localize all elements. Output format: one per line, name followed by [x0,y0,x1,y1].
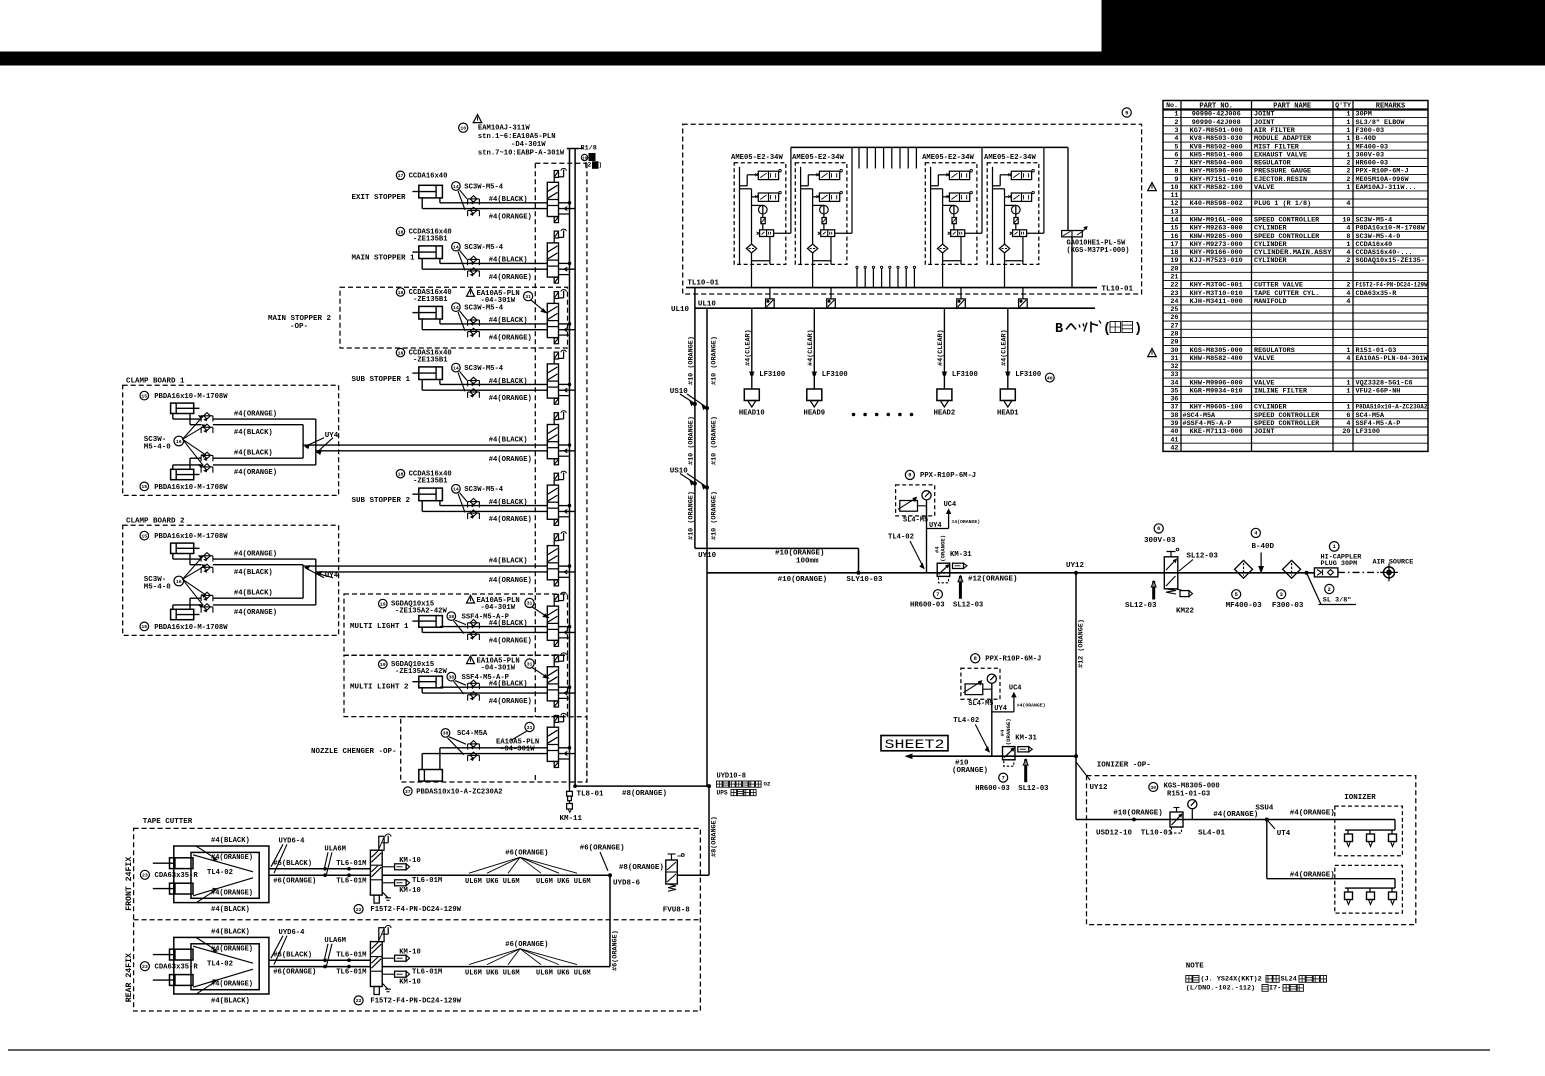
wire #4(BLACK) clamp 1 lower [190,445,303,469]
wire #4(ORANGE) multi light 1 to valve st8 [422,627,547,645]
svg-text:#4(ORANGE): #4(ORANGE) [211,854,253,862]
svg-text:1: 1 [1346,184,1350,192]
wire #4(ORANGE) clamp 1 upper [173,410,316,450]
svg-text:PART NO.: PART NO. [1199,103,1233,111]
svg-text:VFU2-66P-NH: VFU2-66P-NH [1356,388,1401,396]
wire #12(ORANGE) drop to ionizer [1075,756,1077,819]
head drop HEAD9 [807,308,848,389]
svg-text:KG7-M8501-000: KG7-M8501-000 [1190,127,1243,135]
svg-text:#4(ORANGE): #4(ORANGE) [1213,811,1258,819]
svg-text:TL8-01: TL8-01 [577,791,605,799]
wire valve st7 port B to rail B [559,570,576,574]
muffler KM-10 upper (front) [382,857,421,870]
svg-text:#4(ORANGE): #4(ORANGE) [1290,871,1335,879]
svg-text:PPX-R10P-6M-J: PPX-R10P-6M-J [920,472,976,480]
label #12(ORANGE) after HR600 upper [968,575,1018,583]
svg-text:1: 1 [1346,143,1350,151]
svg-text:HEAD1: HEAD1 [997,409,1019,417]
svg-text:UY12: UY12 [1066,562,1085,570]
svg-text:#4(ORANGE): #4(ORANGE) [489,516,532,524]
svg-text:UL10: UL10 [671,306,690,314]
svg-text:3: 3 [1280,592,1283,598]
wire valve st7 port A to rail A [559,565,571,568]
wire AME unit 4 internals [993,167,1023,288]
wire AME unit 1 internals [740,167,770,288]
svg-text:KM-31: KM-31 [950,551,972,559]
svg-text:SC3W-M5-4-0: SC3W-M5-4-0 [1356,233,1401,241]
speed controller 14 SC3W-M5-4 (MAIN STOPPER 2) [452,303,504,337]
svg-text:31: 31 [527,725,533,731]
svg-text:#4(BLACK): #4(BLACK) [489,196,528,204]
svg-text:PBDAS10x10-A-ZC230A2: PBDAS10x10-A-ZC230A2 [416,789,502,797]
valve 31 EA10A5-PLN-04-301W note (MAIN STOPPER 2) [467,289,547,313]
svg-text:MF400-03: MF400-03 [1226,602,1263,610]
svg-text:UL6M UK6 UL6M: UL6M UK6 UL6M [536,878,591,886]
wire main air line #12(ORANGE) [707,571,1314,584]
svg-text:10: 10 [460,126,466,132]
svg-text:4: 4 [1346,420,1350,428]
svg-text:28: 28 [1170,331,1178,339]
svg-text:300V-03: 300V-03 [1144,537,1176,545]
svg-text:-OP-: -OP- [290,323,308,331]
node US10 union 2 [670,467,709,489]
svg-text:KV8-M8502-000: KV8-M8502-000 [1190,143,1243,151]
svg-text:MF400-03: MF400-03 [1356,143,1389,151]
filter AME unit 3 [952,218,956,224]
svg-text:22: 22 [1170,282,1178,290]
wire nozzle chenger ports [422,748,547,770]
svg-text:#SSF4-M5-A-P: #SSF4-M5-A-P [1183,420,1232,428]
svg-text:CUTTER VALVE: CUTTER VALVE [1254,282,1303,290]
nozzle head HEAD2 [934,389,956,417]
wire #4(ORANGE) clamp 2 to valve st7 [316,572,548,585]
svg-text:HEAD9: HEAD9 [804,409,826,417]
title block black box top right [1102,0,1545,57]
svg-text:24: 24 [1170,298,1178,306]
svg-text:38: 38 [1170,412,1178,420]
svg-text:UL6M UK6 UL6M: UL6M UK6 UL6M [465,878,520,886]
svg-text:MODULE ADAPTER: MODULE ADAPTER [1254,135,1312,143]
speed controller 38 SC4-M5A (nozzle chenger) [441,729,488,761]
speed controller 38 SSF4-M5-A-P (multi light 1) [447,612,510,640]
vacuum gauge AME unit 4 [1012,205,1021,214]
svg-text:38: 38 [443,731,449,737]
svg-text:UPS: UPS [717,789,728,796]
speed controller 14 SC3W-M5-4 (SUB STOPPER 2) [452,485,504,520]
svg-text:SC3W-M5-4: SC3W-M5-4 [464,183,504,191]
svg-text:F15T2-F4-PN-DC24-129W: F15T2-F4-PN-DC24-129W [1356,282,1429,290]
svg-text:TL6-01M: TL6-01M [336,860,366,868]
svg-text:#4(ORANGE): #4(ORANGE) [211,945,253,953]
node ellipsis dots (heads 3-8) [852,413,913,416]
svg-text:LF3100: LF3100 [1356,428,1380,436]
svg-text:JOINT: JOINT [1254,119,1274,127]
wire #4(ORANGE) EXIT STOPPER to valve st1 [422,198,547,222]
svg-text:PBDA16x10-M-1708W: PBDA16x10-M-1708W [154,484,228,492]
svg-text:-ZE135B1: -ZE135B1 [413,236,448,244]
wire manifold rail A (supply) [569,149,571,787]
wire valve st9 port A to rail A [559,686,571,689]
svg-text:#4(BLACK): #4(BLACK) [489,681,528,689]
node joint 2 SL 3/8 leader [1305,571,1356,604]
solenoid valve station 7 (EA10A5 manifold valve) [547,532,566,586]
svg-text:CYLINDER: CYLINDER [1254,225,1288,233]
check valve AME unit 2 [807,244,817,253]
svg-text:4: 4 [1346,355,1350,363]
wire AME unit 4 output riser [1027,147,1044,233]
svg-text:4: 4 [1346,290,1350,298]
svg-text:17: 17 [398,173,404,179]
svg-text:#10 (ORANGE): #10 (ORANGE) [710,336,718,385]
regulator 7 HR600-03 (lower) [975,747,1015,793]
svg-text:LF3100: LF3100 [1015,371,1041,379]
svg-text:TL4-02: TL4-02 [953,717,979,725]
svg-text:12: 12 [1170,200,1178,208]
svg-text:23: 23 [1170,290,1178,298]
wire station comb (top, unused stations) [859,147,916,168]
solenoid valve station 3 (EA10A5 manifold valve) [547,290,566,344]
svg-text:UL6M UK6 UL6M: UL6M UK6 UL6M [465,969,520,977]
node US10 union 1 [670,388,709,410]
svg-text:SPEED CONTROLLER: SPEED CONTROLLER [1254,412,1320,420]
svg-text:#12 (ORANGE): #12 (ORANGE) [1078,619,1086,668]
svg-text:SSU4: SSU4 [1255,805,1274,813]
svg-text:#10 (ORANGE): #10 (ORANGE) [687,336,695,385]
svg-text:): ) [1134,322,1142,337]
svg-text:CDA63x35-R: CDA63x35-R [1356,290,1398,298]
svg-text:KM-11: KM-11 [560,815,583,823]
wire #8(ORANGE) manifold exhaust to UYD10-8 [574,785,709,798]
svg-text:#10 (ORANGE): #10 (ORANGE) [710,491,718,540]
node UYD6-4 (front) [271,837,305,873]
wire #4(BLACK) SUB STOPPER 2 to valve st6 [440,499,547,507]
joint TL6-01M labels (rear) [336,951,366,976]
node UYD6-4 (rear) [271,929,305,965]
label #10 (ORANGE) risers y337 [687,336,718,385]
svg-text:CCDAS16x40-...: CCDAS16x40-... [1356,249,1413,257]
svg-text:5: 5 [1174,143,1178,151]
svg-text:CCDA16x40: CCDA16x40 [1356,241,1393,249]
svg-text:14: 14 [453,487,459,493]
svg-text:#6(ORANGE): #6(ORANGE) [273,969,316,977]
svg-text:US10: US10 [670,388,689,396]
wire valve st3 port A to rail A [559,323,571,326]
svg-text:-04-301W: -04-301W [500,745,535,753]
wire #4(ORANGE) multi light 2 to valve st9 [422,688,547,706]
svg-text:MULTI LIGHT 2: MULTI LIGHT 2 [350,684,409,692]
svg-text:7: 7 [1174,160,1178,168]
svg-text:KM-10: KM-10 [399,857,421,865]
joint TL8-01 [567,786,604,801]
svg-text:22: 22 [356,998,362,1004]
muffler KM-31 (upper) [950,551,972,568]
svg-text:UY12: UY12 [1090,784,1109,792]
svg-text:1: 1 [1346,127,1350,135]
svg-text:16: 16 [176,579,182,585]
svg-text:VALVE: VALVE [1254,379,1274,387]
svg-text:#4(ORANGE): #4(ORANGE) [489,456,532,464]
node UY4 / UC4 (upper) [927,501,981,562]
svg-text:7: 7 [936,592,939,598]
svg-text:): ) [599,162,603,169]
node UY12 lower junction [1074,755,1108,792]
svg-text:#10 (ORANGE): #10 (ORANGE) [687,491,695,540]
wire manifold rail B (supply) [574,149,576,787]
air source symbol [1373,559,1414,582]
svg-text:30PM: 30PM [1356,111,1372,119]
svg-text:#10 (ORANGE): #10 (ORANGE) [710,416,718,465]
svg-text:KH5-M8501-000: KH5-M8501-000 [1190,151,1243,159]
cylinder 18 ('CCDAS16x40', '-ZE135B1') (MAIN STOPPER 1) [396,227,451,258]
pressure gauge 8 PPX-R10P-6M-J (upper) [896,470,976,524]
svg-text:14: 14 [453,305,459,311]
svg-text:SL12-03: SL12-03 [1125,602,1157,610]
svg-text:37: 37 [405,789,411,795]
cylinder 23 CDA63x35-R pair (front) [140,858,198,894]
svg-text:-ZE135B1: -ZE135B1 [413,296,448,304]
svg-text:REAR 24FIX: REAR 24FIX [125,953,134,1002]
muffler KM-10 lower (front) [382,877,442,895]
svg-text:TL10-01: TL10-01 [1141,830,1173,838]
svg-text:IONIZER: IONIZER [1344,794,1376,802]
speed controller 14 SC3W-M5-4 (EXIT STOPPER) [452,182,504,217]
svg-text:TL4-02: TL4-02 [207,869,233,877]
svg-text:KKT-M8582-100: KKT-M8582-100 [1190,184,1243,192]
node UY12 union [1066,562,1085,574]
svg-text:PLUG 1 (R 1/8): PLUG 1 (R 1/8) [1254,200,1311,208]
solenoid valve station 6 (EA10A5 manifold valve) [547,471,566,525]
warning triangle (table row 10) [1148,183,1157,191]
svg-text:KM-31: KM-31 [1015,735,1037,743]
MULTI LIGHT 1 dashed group box [344,594,568,655]
svg-text:19: 19 [1170,257,1178,265]
wire valve st2 exhaust stub [559,274,570,276]
wire dash-dot to air source [1338,571,1383,573]
svg-text:TAPE CUTTER: TAPE CUTTER [143,818,193,826]
svg-text:(ORANGE): (ORANGE) [952,767,988,775]
svg-text:#4(BLACK): #4(BLACK) [234,450,273,458]
svg-text:31: 31 [1170,355,1178,363]
svg-text:SUB STOPPER 1: SUB STOPPER 1 [352,376,411,384]
svg-text:US10: US10 [670,467,689,475]
wire #4(ORANGE) SUB STOPPER 1 to valve st4 [422,380,547,404]
svg-text:JOINT: JOINT [1254,428,1274,436]
wire valve st3 port B to rail B [559,328,576,332]
svg-text:#4(BLACK): #4(BLACK) [211,837,250,845]
svg-text:2: 2 [1346,176,1350,184]
cylinder 19 SGDAQ10x15-ZE135A2-42W (multi light 2) [379,660,448,688]
svg-text:20: 20 [1170,265,1178,273]
svg-text:27: 27 [1170,322,1178,330]
pressure gauge 8 PPX-R10P-6M-J (lower) [961,654,1041,708]
svg-text:AME05-E2-34W: AME05-E2-34W [922,154,974,162]
wire manifold bus UL10 [671,301,1095,314]
cylinder 18 ('CCDAS16x40', '-ZE135B1') (SUB STOPPER 2) [396,470,451,501]
label FRONT 24FIX [125,857,134,911]
svg-text:1: 1 [1346,347,1350,355]
svg-text:CYLINDER: CYLINDER [1254,404,1288,412]
solenoid valve station 4 (EA10A5 manifold valve) [547,350,566,404]
svg-text:#6(ORANGE): #6(ORANGE) [612,930,620,971]
svg-text:#6(ORANGE): #6(ORANGE) [505,941,548,949]
svg-text:MULTI LIGHT 1: MULTI LIGHT 1 [350,623,409,631]
svg-text:F15T2-F4-PN-DC24-129W: F15T2-F4-PN-DC24-129W [370,906,461,914]
joint ULA6M (rear) [324,937,346,966]
svg-text:stn.1~6:EA10A5-PLN: stn.1~6:EA10A5-PLN [478,133,556,141]
svg-text:P8DAS10x10-A-ZC230A2: P8DAS10x10-A-ZC230A2 [1356,404,1428,412]
svg-text:KGS-M8305-000: KGS-M8305-000 [1164,782,1220,790]
svg-text:41: 41 [1170,436,1178,444]
svg-text:-04-301W: -04-301W [481,604,516,612]
svg-text:HR600-03: HR600-03 [1356,160,1389,168]
svg-text:KV8-M8503-030: KV8-M8503-030 [1190,135,1243,143]
svg-text:1: 1 [1333,544,1336,550]
vacuum gauge AME unit 3 [950,205,959,214]
valve 10 EAM10AJ-311W manifold note [459,115,565,158]
wire #6(BLACK) (front) [269,860,371,870]
MAIN STOPPER 2 group label [268,315,332,331]
svg-text:35: 35 [1170,388,1178,396]
svg-text:#4(CLEAR): #4(CLEAR) [1001,329,1009,366]
air filter 3 F300-03 [1272,560,1304,610]
svg-text:CYLINDER: CYLINDER [1254,241,1288,249]
svg-text:8: 8 [908,473,911,479]
svg-text:MAIN STOPPER 1: MAIN STOPPER 1 [352,255,416,263]
EXIT STOPPER group label [352,194,407,202]
svg-text:KGS-M8305-000: KGS-M8305-000 [1190,347,1243,355]
svg-text:AME05-E2-34W: AME05-E2-34W [792,154,844,162]
wire #6(ORANGE) (front) [269,874,371,885]
svg-text:FRONT 24FIX: FRONT 24FIX [125,857,134,911]
valve 31 EA10A5-PLN-04-301W note (multi light 1) [467,595,549,617]
svg-text:UY4: UY4 [929,522,942,530]
svg-text:#4(ORANGE): #4(ORANGE) [1017,703,1046,709]
svg-text:25: 25 [1170,306,1178,314]
svg-text:32: 32 [1170,363,1178,371]
svg-text:#4(BLACK): #4(BLACK) [489,257,528,265]
svg-text:-ZE135A2-42W: -ZE135A2-42W [395,668,447,676]
svg-text:KHY-M8504-000: KHY-M8504-000 [1190,160,1243,168]
svg-text:KHY-M9263-000: KHY-M9263-000 [1190,225,1243,233]
svg-text:2: 2 [1328,587,1331,593]
svg-text:#6(ORANGE): #6(ORANGE) [580,844,625,852]
cylinder 15 PBDA16x10-M-1708W lower (clamp 1) [140,469,228,492]
svg-text:#4(BLACK): #4(BLACK) [489,378,528,386]
svg-text:SC4-M5A: SC4-M5A [1356,412,1385,420]
svg-text:LF3100: LF3100 [759,371,785,379]
wire manifold bus TL10-01 [686,279,1134,293]
svg-text:VALVE: VALVE [1254,184,1274,192]
svg-text:EJECTOR.RESIN: EJECTOR.RESIN [1254,176,1307,184]
svg-text:-D4-301W: -D4-301W [511,141,546,149]
TAPE CUTTER dashed group box [134,828,701,1011]
svg-text:TL10-01: TL10-01 [687,279,719,287]
MULTI LIGHT 2 dashed group box [344,655,568,716]
wire #6(ORANGE) output (rear) [382,941,610,978]
wire #4(BLACK) EXIT STOPPER to valve st1 [440,196,547,204]
B-head assembly dashed enclosure [683,124,1142,294]
manifold block 24 TL4-02 (front) [174,837,269,914]
svg-text:UL10: UL10 [698,301,717,309]
svg-text:1: 1 [1174,111,1178,119]
svg-text:#SC4-M5A: #SC4-M5A [1183,412,1217,420]
label #6(ORANGE) near FVU8-8 [580,844,625,871]
solenoid valve station 9 (EA10A5 manifold valve) [547,653,566,707]
svg-text:PRESSURE GAUGE: PRESSURE GAUGE [1254,168,1311,176]
svg-text:40: 40 [1047,375,1053,381]
svg-text:UY10: UY10 [698,552,717,560]
valve GA010HE1-PL-5W (KGS-M37P1-000) [1062,147,1130,287]
label #10 (ORANGE) risers y492 [687,491,718,540]
CLAMP BOARD 1 dashed group box [123,378,339,496]
valve (vacuum) AME unit 1 [755,191,781,201]
valve (vacuum) AME unit 4 [1008,191,1034,201]
valve (supply) AME unit 4 [1008,170,1034,180]
solenoid valve station 1 (EA10A5 manifold valve) [547,168,566,222]
cylinder 17 CCDA16x40 (EXIT STOPPER) [396,171,447,198]
svg-text:KHW-M9906-000: KHW-M9906-000 [1190,379,1243,387]
valve (supply) AME unit 2 [816,170,842,180]
svg-text:SSF4-M5-A-P: SSF4-M5-A-P [1356,420,1401,428]
svg-text:LF3100: LF3100 [952,371,978,379]
speed controller 38 SSF4-M5-A-P (multi light 2) [447,672,510,700]
svg-text:7: 7 [1002,775,1005,781]
wire #4(ORANGE) SUB STOPPER 2 to valve st6 [422,501,547,525]
wire valve st1 port B to rail B [559,207,576,211]
wire #4(ORANGE) MAIN STOPPER 2 to valve st3 [422,319,547,343]
cylinder 18 ('CCDAS16x40', '-ZE135B1') (SUB STOPPER 1) [396,348,451,379]
head drop HEAD10 [745,308,786,389]
svg-text:VQZ3328-5G1-C6: VQZ3328-5G1-C6 [1356,379,1413,387]
wire #10(ORANGE) riser 2 [706,308,708,786]
svg-text:TL6-01M: TL6-01M [412,969,442,977]
svg-text:-ZE135B1: -ZE135B1 [413,478,448,486]
svg-text:#10(ORANGE): #10(ORANGE) [778,576,828,584]
svg-text:KHY-M8596-000: KHY-M8596-000 [1190,168,1243,176]
muffler (silencer square) AME unit 1 [766,288,775,308]
warning triangle (table row 31) [1148,349,1157,357]
mist filter 5 MF400-03 [1226,560,1263,610]
svg-text:#4(ORANGE): #4(ORANGE) [234,550,277,558]
wire valve st8 port A to rail A [559,625,571,628]
wire AME unit 1 output riser [774,147,791,233]
svg-text:#4(BLACK): #4(BLACK) [211,928,250,936]
valve column dashed enclosure [535,163,587,781]
svg-text:JOINT: JOINT [1254,111,1274,119]
wire valve st2 port B to rail B [559,267,576,271]
svg-text:TL10-01: TL10-01 [1102,286,1134,294]
svg-text:SHEET2: SHEET2 [885,737,945,752]
wire valve st10 port A to rail A [559,747,571,750]
svg-text:TL4-02: TL4-02 [888,534,914,542]
svg-text:KM-10: KM-10 [399,887,421,895]
wire valve st10 port B to rail B [559,752,576,756]
SUB STOPPER 2 group label [352,497,411,505]
wire #4(BLACK) MAIN STOPPER 2 to valve st3 [440,317,547,325]
svg-text:15: 15 [141,624,147,630]
joint TL6-01M labels (front) [336,860,366,885]
svg-text:SL 3/8": SL 3/8" [1323,597,1352,605]
svg-text:AIR SOURCE: AIR SOURCE [1373,559,1414,567]
filter AME unit 4 [1014,218,1018,224]
svg-text:31: 31 [525,294,531,300]
wire to ionizer bar 2 #4(ORANGE) [1267,820,1395,889]
label B-head (rear side) [1055,321,1142,338]
svg-text:#4(ORANGE): #4(ORANGE) [489,577,532,585]
svg-text:(J. YS24X(KKT)2: (J. YS24X(KKT)2 [1201,976,1262,984]
svg-text:14: 14 [453,244,459,250]
CLAMP BOARD 2 dashed group box [123,518,339,636]
